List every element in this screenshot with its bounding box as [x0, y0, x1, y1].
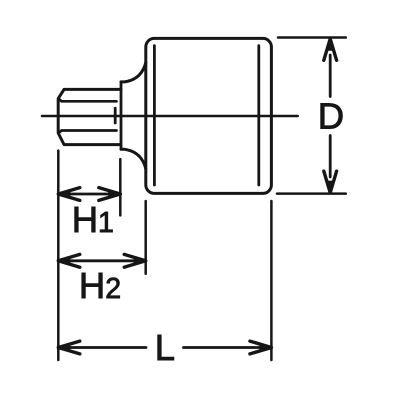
neck face [120, 82, 123, 149]
hex bit outline [58, 89, 121, 144]
L right arrowhead [250, 341, 272, 354]
D bottom extension line [277, 192, 346, 195]
H1 dimension line [58, 193, 120, 196]
svg-text:H1: H1 [72, 199, 114, 240]
D bottom arrowhead [324, 171, 337, 193]
L left arrowhead [58, 341, 80, 354]
H2 dimension line [58, 259, 145, 262]
svg-text:L: L [155, 327, 175, 368]
D top arrowhead [324, 39, 337, 61]
socket body inner edge left [153, 46, 156, 185]
svg-text:H2: H2 [79, 265, 121, 306]
H2 right arrowhead [124, 254, 146, 267]
D top extension line [278, 36, 346, 39]
svg-text:D: D [318, 96, 344, 137]
neck bottom fillet [121, 149, 146, 168]
H2 right extension line [144, 201, 147, 274]
hex bit corner edge [114, 108, 117, 123]
socket body inner edge right [257, 46, 260, 185]
H1 right extension line [119, 159, 122, 215]
H1 right arrowhead [99, 188, 121, 201]
socket body [146, 38, 272, 193]
H1 left arrowhead [58, 188, 80, 201]
left extension line [57, 151, 60, 360]
L dimension line [58, 346, 271, 349]
L right extension line [270, 201, 273, 360]
hex bit internal edge lower [59, 131, 117, 134]
D dimension line [329, 55, 332, 177]
centerline [42, 115, 298, 118]
H2 left arrowhead [58, 254, 80, 267]
hex bit internal edge upper [59, 99, 117, 102]
neck top fillet [121, 63, 146, 82]
